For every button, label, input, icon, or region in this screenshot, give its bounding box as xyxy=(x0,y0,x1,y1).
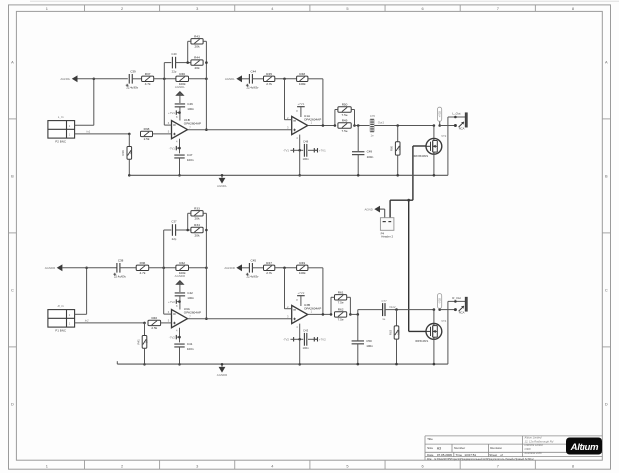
resistor R62 7.5e xyxy=(335,308,347,322)
svg-text:20k: 20k xyxy=(195,217,200,221)
connector X2 RCA L xyxy=(452,111,467,130)
junction shunt cap rail node T xyxy=(357,174,360,177)
svg-text:C40: C40 xyxy=(171,52,177,56)
inductor C76 1e xyxy=(370,114,376,138)
power port +7V1 a xyxy=(168,110,179,114)
power port AGNDR input xyxy=(45,264,63,271)
border column tick xyxy=(234,5,236,11)
svg-text:C39: C39 xyxy=(130,69,136,73)
svg-text:In2: In2 xyxy=(85,318,89,322)
border row tick xyxy=(9,232,17,234)
svg-text:C77: C77 xyxy=(382,299,388,303)
wire R36 to node xyxy=(149,267,176,269)
junction bias rail node xyxy=(143,363,146,366)
svg-text:5: 5 xyxy=(346,6,348,11)
svg-text:IRF510NS: IRF510NS xyxy=(415,339,428,343)
wire opamp1 output xyxy=(188,129,292,131)
border column tick xyxy=(534,5,536,11)
wire pair right lead A xyxy=(203,212,206,214)
wire gate stub B xyxy=(409,330,426,332)
wire out lower wire B xyxy=(440,309,456,311)
wire R38 to pin5 xyxy=(153,133,172,135)
wire low to rail riser xyxy=(299,150,301,175)
svg-text:100n: 100n xyxy=(366,344,373,348)
resistor R42 100k xyxy=(176,261,189,275)
resistor R49 100k xyxy=(297,261,308,275)
wire low line mid-left xyxy=(301,149,303,151)
power port +V35 T xyxy=(438,107,442,121)
capacitor C37 xyxy=(171,220,177,241)
wire pair lead LA T xyxy=(335,109,338,111)
svg-text:2.7k: 2.7k xyxy=(266,82,272,86)
resistor R33 20k xyxy=(191,206,203,220)
svg-text:6: 6 xyxy=(422,463,424,468)
svg-text:2: 2 xyxy=(121,6,123,11)
svg-text:of: of xyxy=(500,453,503,457)
wire gate bias horizontal xyxy=(390,199,413,201)
wire stage2 fb riser xyxy=(322,268,324,315)
junction low line node xyxy=(298,149,301,152)
svg-text:R63: R63 xyxy=(388,329,392,335)
wire pin6 stub xyxy=(164,124,171,126)
junction shunt R node T xyxy=(396,124,399,127)
junction bias node xyxy=(143,322,146,325)
svg-text:OPA2604AP: OPA2604AP xyxy=(304,307,321,311)
wire pin2 stub xyxy=(285,119,292,121)
svg-text:7.5e: 7.5e xyxy=(342,129,348,133)
wire cluster left riser xyxy=(163,63,165,126)
svg-text:100n: 100n xyxy=(187,158,194,162)
wire drain riser B xyxy=(433,310,435,324)
resistor R40 2.5k xyxy=(148,316,161,330)
sheet edge line xyxy=(30,0,619,2)
svg-text:AGNDR: AGNDR xyxy=(175,274,185,278)
svg-text:7: 7 xyxy=(497,6,499,11)
svg-text:C46: C46 xyxy=(187,102,193,106)
junction source rail node T xyxy=(433,174,436,177)
svg-text:100n: 100n xyxy=(187,347,194,351)
svg-text:IRF9540NS: IRF9540NS xyxy=(414,154,429,158)
junction jog node B xyxy=(357,313,360,316)
wire out upper wire T xyxy=(448,116,465,118)
svg-text:R48: R48 xyxy=(299,72,305,76)
svg-text:R45: R45 xyxy=(266,72,272,76)
wire gate stub T xyxy=(413,145,426,147)
border column tick xyxy=(309,5,311,11)
resistor R63 10e xyxy=(388,326,400,339)
wire gate bias top riser xyxy=(412,146,414,200)
svg-text:A: A xyxy=(605,59,608,64)
junction pair left node xyxy=(186,61,189,64)
svg-text:R49: R49 xyxy=(299,261,305,265)
junction v- node xyxy=(178,336,181,339)
svg-text:100n: 100n xyxy=(187,107,194,111)
op-amp U3A xyxy=(168,304,201,332)
junction bnc pin2 node xyxy=(85,267,88,270)
power port +7V text xyxy=(314,148,326,152)
wire pin2 stub xyxy=(285,308,292,310)
wire agnd to C46 xyxy=(179,284,181,292)
capacitor C46 100n xyxy=(175,102,195,111)
svg-text:C38: C38 xyxy=(118,258,124,262)
wire C47 to rail xyxy=(179,347,181,364)
junction low rail node xyxy=(298,363,301,366)
wire C46 to plus port xyxy=(179,296,181,310)
wire R48 to fb riser xyxy=(308,267,323,269)
wire agnd to C46 xyxy=(179,95,181,103)
junction shunt R node B xyxy=(395,308,398,311)
svg-text:B: B xyxy=(605,173,608,178)
capacitor C38 22.4u xyxy=(113,258,126,278)
wire pin4 riser 2 xyxy=(299,324,301,340)
junction pair left node xyxy=(186,229,189,232)
wire pin6 stub xyxy=(164,313,172,315)
svg-text:Frenchs Forest: Frenchs Forest xyxy=(525,443,543,447)
junction shunt cap rail node B xyxy=(357,363,360,366)
svg-text:File:: File: xyxy=(427,457,432,461)
svg-text:1e: 1e xyxy=(371,134,375,138)
svg-text:12, 12a Rodborough Rd: 12, 12a Rodborough Rd xyxy=(525,439,554,443)
company address xyxy=(524,436,554,455)
wire cap lead right xyxy=(176,62,191,64)
svg-text:4.7k: 4.7k xyxy=(140,271,146,275)
capacitor C43 xyxy=(302,329,309,350)
junction fb node B xyxy=(322,313,325,316)
wire pair lead RA T xyxy=(351,109,354,111)
transistor Q2 IRF510NS xyxy=(415,319,447,343)
svg-text:4.7k: 4.7k xyxy=(145,82,151,86)
wire cluster left riser xyxy=(163,230,165,314)
svg-text:RCA: RCA xyxy=(459,126,465,130)
svg-text:100n: 100n xyxy=(367,155,374,159)
power port +7V2 a xyxy=(168,299,179,303)
wire out wire to cap B xyxy=(358,309,383,311)
capacitor C44 22.4u xyxy=(246,69,259,89)
wire pin4 riser xyxy=(179,139,181,154)
svg-text:Out1: Out1 xyxy=(378,121,385,125)
capacitor C39 22.4u xyxy=(126,69,139,89)
svg-text:Altium Limited: Altium Limited xyxy=(524,436,542,440)
svg-text:L_In: L_In xyxy=(58,115,64,119)
svg-text:20k: 20k xyxy=(195,66,200,70)
svg-text:AGND: AGND xyxy=(364,207,372,211)
svg-text:-7V2: -7V2 xyxy=(169,335,175,339)
power port +7V up xyxy=(297,102,305,107)
capacitor C50 100n xyxy=(352,339,374,348)
svg-text:Out2: Out2 xyxy=(389,305,396,309)
wire bnc pin1 xyxy=(75,322,145,324)
junction output fb node xyxy=(205,128,208,131)
svg-text:C44: C44 xyxy=(251,69,257,73)
wire R48 to fb riser xyxy=(308,78,323,80)
svg-text:R62: R62 xyxy=(338,308,344,312)
wire low line left xyxy=(294,338,302,340)
svg-text:C48: C48 xyxy=(303,140,309,144)
svg-text:C: C xyxy=(11,287,14,292)
svg-text:-7V1: -7V1 xyxy=(169,146,175,150)
svg-text:R_In: R_In xyxy=(58,304,64,308)
junction low line node xyxy=(298,338,301,341)
wire pair right lead A xyxy=(203,40,206,42)
wire R to out node xyxy=(189,267,207,269)
svg-text:-V35: -V35 xyxy=(438,298,442,304)
svg-text:8: 8 xyxy=(572,6,574,11)
resistor R60 10e xyxy=(390,142,402,155)
resistor R46 100k xyxy=(176,72,189,86)
resistor R39 1k xyxy=(121,147,133,160)
power port -7V low xyxy=(290,148,293,152)
wire pair lead RA B xyxy=(347,296,351,298)
svg-text:R34: R34 xyxy=(194,223,200,227)
svg-text:C47: C47 xyxy=(187,153,193,157)
wire pair riser R B xyxy=(349,297,351,314)
power port -7V low xyxy=(290,337,293,341)
junction feedback right node xyxy=(205,78,208,81)
svg-text:VT4: VT4 xyxy=(441,319,446,323)
capacitor C40 xyxy=(171,52,177,73)
wire stage2 cap to R45 xyxy=(252,267,263,269)
resistor R37 4.7k xyxy=(142,72,154,86)
wire pair riser L T xyxy=(334,110,336,126)
svg-text:6: 6 xyxy=(422,6,424,11)
wire pair left lead B xyxy=(188,229,191,231)
wire out upper wire B xyxy=(448,300,465,302)
resistor R47 2.7k xyxy=(264,261,275,275)
wire stage2 cap to R45 xyxy=(252,78,263,80)
wire pair riser L B xyxy=(330,297,332,314)
wire stage2 agnd wire xyxy=(242,267,249,269)
wire AGND rail xyxy=(129,174,448,176)
svg-text:20k: 20k xyxy=(195,233,200,237)
op-amp U1B xyxy=(168,115,201,143)
wire input agnd wire xyxy=(62,267,117,269)
wire opamp2 out wire T xyxy=(308,125,335,127)
junction dec rail node xyxy=(178,174,181,177)
wire gate bias bottom riser xyxy=(408,200,410,331)
junction fb node T xyxy=(322,124,325,127)
transistor Q1 IRF9540NS xyxy=(414,134,447,158)
junction source rail node B xyxy=(433,363,436,366)
svg-text:R_Out: R_Out xyxy=(452,296,461,300)
svg-text:100n: 100n xyxy=(302,157,309,161)
svg-text:P2 BNC: P2 BNC xyxy=(55,140,67,144)
junction dec rail node xyxy=(178,363,181,366)
svg-text:1: 1 xyxy=(46,6,48,11)
svg-text:AGNDL: AGNDL xyxy=(60,77,70,81)
wire source lead T xyxy=(433,154,435,175)
svg-text:3: 3 xyxy=(196,6,198,11)
wire C46 to plus port xyxy=(179,107,181,121)
power port AGND header xyxy=(364,206,380,213)
wire pair left lead A xyxy=(188,212,191,214)
Altium logo xyxy=(566,438,602,455)
wire shunt cap riser B xyxy=(357,314,359,340)
wire pair left riser xyxy=(187,41,189,62)
svg-text:R42: R42 xyxy=(179,261,185,265)
svg-text:R49: R49 xyxy=(342,119,348,123)
svg-text:OPA2604AP: OPA2604AP xyxy=(184,311,201,315)
svg-text:7.5e: 7.5e xyxy=(342,113,348,117)
wire shunt R to rail B xyxy=(396,339,398,364)
wire shunt cap riser T xyxy=(357,126,359,152)
wire R45 to node xyxy=(275,267,297,269)
junction feedback right node xyxy=(205,267,208,270)
svg-text:R47: R47 xyxy=(266,261,272,265)
svg-text:Australia 2086: Australia 2086 xyxy=(524,451,543,455)
wire opamp2 out wire B xyxy=(308,313,331,315)
svg-text:22.4u/63v: 22.4u/63v xyxy=(114,274,126,278)
junction bias node xyxy=(128,133,131,136)
wire bias riser top xyxy=(144,323,146,336)
svg-text:22.4u/63v: 22.4u/63v xyxy=(246,85,258,89)
op-amp U3B xyxy=(287,298,321,329)
junction supply node B xyxy=(438,308,441,311)
wire source lead B xyxy=(433,339,435,364)
wire supply riser B xyxy=(439,308,441,309)
wire shunt R riser B xyxy=(396,310,398,326)
resistor R34 20k xyxy=(191,223,203,237)
svg-text:13:07:51: 13:07:51 xyxy=(464,453,476,457)
svg-text:100k: 100k xyxy=(299,82,306,86)
junction pair node L T xyxy=(334,124,337,127)
svg-text:100k: 100k xyxy=(299,271,306,275)
wire out loop riser T xyxy=(447,117,449,175)
svg-text:8: 8 xyxy=(572,463,574,468)
wire low to rail riser xyxy=(299,339,301,364)
resistor R49 7.5e xyxy=(338,119,351,133)
svg-text:C43: C43 xyxy=(303,329,309,333)
svg-text:C: C xyxy=(605,287,608,292)
svg-text:R36: R36 xyxy=(140,261,146,265)
resistor R43 20k xyxy=(191,34,203,48)
connector P4 Header 2 xyxy=(380,218,394,239)
power port AGNDL input xyxy=(60,75,77,82)
op-amp U1A xyxy=(287,109,321,140)
svg-text:C45: C45 xyxy=(251,258,257,262)
svg-text:+V35: +V35 xyxy=(438,111,442,118)
power port +7V low xyxy=(314,148,317,152)
wire header pin1 riser xyxy=(384,209,386,217)
svg-text:R38: R38 xyxy=(144,127,150,131)
wire bnc pin2 riser xyxy=(86,268,88,315)
resistor R38 2.5k xyxy=(141,127,153,141)
wire C47 to rail xyxy=(179,158,181,175)
svg-text:AGNDR: AGNDR xyxy=(217,373,227,377)
wire pair right riser xyxy=(205,213,207,318)
svg-text:C50: C50 xyxy=(366,339,372,343)
power port +7V up xyxy=(297,291,305,296)
wire pin4 riser xyxy=(179,328,181,343)
svg-text:22p: 22p xyxy=(172,237,177,241)
svg-text:Number: Number xyxy=(454,446,465,450)
wire cap lead left xyxy=(164,62,171,64)
svg-text:+7V2: +7V2 xyxy=(319,338,326,342)
power port AGND dec L xyxy=(175,85,185,95)
wire cap to R37 xyxy=(132,78,141,80)
wire stage2 agnd wire xyxy=(242,78,249,80)
wire drain riser T xyxy=(433,126,435,139)
connector X1 RCA R xyxy=(452,296,467,315)
svg-text:7.5e: 7.5e xyxy=(338,301,344,305)
junction v- node xyxy=(178,147,181,150)
wire out loop riser B xyxy=(447,301,449,364)
capacitor C47 100n xyxy=(174,153,194,162)
svg-text:A3: A3 xyxy=(437,446,441,450)
wire pair left lead B xyxy=(188,62,191,64)
svg-text:2.7k: 2.7k xyxy=(266,271,272,275)
wire pair right riser xyxy=(205,41,207,129)
junction pair right node xyxy=(205,229,208,232)
wire jog riser B xyxy=(357,310,359,315)
capacitor C41 100n xyxy=(174,342,194,351)
svg-text:1e: 1e xyxy=(382,317,386,321)
junction bnc pin2 node xyxy=(93,78,96,81)
svg-text:R46: R46 xyxy=(179,72,185,76)
wire R to out node xyxy=(189,78,207,80)
resistor R36 4.7k xyxy=(136,261,149,275)
power port AGND dec R xyxy=(175,274,185,284)
svg-text:C76: C76 xyxy=(370,114,376,118)
junction rca shield node B xyxy=(454,308,457,311)
svg-text:+7V1: +7V1 xyxy=(297,102,304,106)
junction drain node T xyxy=(433,124,436,127)
junction rail arrow node xyxy=(221,174,224,177)
svg-text:5: 5 xyxy=(346,463,348,468)
wire shunt cap to rail T xyxy=(357,155,359,176)
wire pin4 riser 2 xyxy=(299,135,301,151)
wire cap lead left xyxy=(164,229,172,231)
svg-text:+7V2: +7V2 xyxy=(297,291,304,295)
wire bnc pin2 xyxy=(75,313,87,315)
svg-text:R50: R50 xyxy=(342,103,348,107)
wire pair riser R T xyxy=(354,110,356,126)
junction supply node T xyxy=(438,124,441,127)
resistor R41 1k xyxy=(136,336,148,349)
svg-text:AGNDL: AGNDL xyxy=(175,85,185,89)
wire pair left lead A xyxy=(188,40,191,42)
wire R37 to node xyxy=(154,78,176,80)
capacitor C48 xyxy=(302,140,309,161)
svg-text:+7V1: +7V1 xyxy=(319,149,326,153)
resistor R48 100k xyxy=(297,72,308,86)
border column tick xyxy=(384,5,386,11)
wire supply riser T xyxy=(439,121,441,125)
wire pair left riser xyxy=(187,213,189,230)
power port +7V low xyxy=(314,337,317,341)
svg-text:D: D xyxy=(605,401,608,406)
svg-text:R43: R43 xyxy=(194,34,200,38)
capacitor C77 1e xyxy=(382,299,388,321)
wire AGND rail xyxy=(117,363,448,365)
svg-text:AGNDR: AGNDR xyxy=(224,266,234,270)
svg-text:C41: C41 xyxy=(187,342,193,346)
title block labels xyxy=(427,437,534,461)
border row tick xyxy=(9,346,17,348)
capacitor C45 22.4u xyxy=(246,258,259,278)
svg-text:1: 1 xyxy=(46,463,48,468)
svg-text:Title: Title xyxy=(427,437,433,441)
wire bias riser bottom xyxy=(144,348,146,364)
svg-text:R44: R44 xyxy=(194,56,200,60)
svg-text:AGNDL: AGNDL xyxy=(217,184,227,188)
junction rca shield node T xyxy=(454,124,457,127)
junction low rail node xyxy=(298,174,301,177)
power port AGND rail arrow xyxy=(217,175,227,188)
svg-text:C49: C49 xyxy=(367,150,373,154)
wire bias riser top xyxy=(128,134,130,147)
svg-text:Date: Date xyxy=(427,453,434,457)
svg-text:2.5k: 2.5k xyxy=(144,137,150,141)
